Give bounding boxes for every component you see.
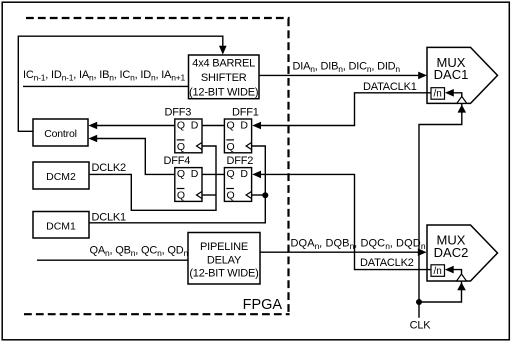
svg-text:DCM1: DCM1 <box>46 220 76 232</box>
flip-flop DFF1 <box>224 107 258 153</box>
arrowhead CLK into DAC2 clock <box>457 282 466 290</box>
DCM1 block <box>33 212 89 239</box>
barrel shifter U1 <box>189 55 260 99</box>
svg-text:DAC1: DAC1 <box>434 67 469 82</box>
svg-text:DELAY: DELAY <box>207 254 242 266</box>
svg-text:DCLK1: DCLK1 <box>92 212 127 224</box>
wire: DCLK2 from DCM2 to DFF3/DFF4 clocks <box>89 146 216 210</box>
wire: DFF4 Q to Control <box>97 139 175 175</box>
svg-text:PIPELINE: PIPELINE <box>200 241 248 253</box>
wire: DFF1 Q to DFF3 D <box>202 125 224 127</box>
flip-flop DFF4 <box>164 155 203 201</box>
svg-text:SHIFTER: SHIFTER <box>201 72 247 84</box>
junction on CLK trunk <box>416 299 422 305</box>
svg-text:DAC2: DAC2 <box>434 245 469 260</box>
svg-text:DCM2: DCM2 <box>46 171 76 183</box>
clock input triangle of DAC1 <box>457 96 467 103</box>
control block <box>33 119 88 146</box>
divider /n of DAC2 <box>431 265 445 277</box>
flip-flop DFF3 <box>165 107 203 153</box>
svg-text:DIAn, DIBn, DICn, DIDn: DIAn, DIBn, DICn, DIDn <box>293 61 401 75</box>
svg-text:FPGA: FPGA <box>243 297 283 313</box>
wire: DQ bus pipeline delay to DAC2 <box>260 251 418 253</box>
svg-text:Q: Q <box>177 190 185 202</box>
arrowhead CLK into DAC1 clock <box>458 105 467 113</box>
arrowhead DFF4 Q into Control <box>88 135 97 143</box>
svg-text:D: D <box>191 120 199 132</box>
flip-flop DFF2 <box>224 155 253 201</box>
wire: DATACLK1 from /n to DFF1 D <box>261 93 431 126</box>
wire: QA bus input to pipeline delay <box>37 259 188 261</box>
arrowhead CLK into /n1 <box>445 89 454 97</box>
mux-dac U2 pentagon (MUX DAC1) <box>427 47 498 103</box>
wire: DFF2 Q to DFF4 D <box>202 173 224 175</box>
svg-text:(12-BIT WIDE): (12-BIT WIDE) <box>189 267 258 279</box>
svg-text:DFF4: DFF4 <box>164 155 191 167</box>
FPGA boundary (dashed) right edge <box>287 19 289 315</box>
wire: DATACLK2 from /n to DFF2 D <box>261 174 431 269</box>
svg-text:D: D <box>240 168 248 180</box>
wire: DIA bus barrel shifter to DAC1 <box>259 74 419 76</box>
svg-text:Q: Q <box>177 141 185 153</box>
svg-text:/n: /n <box>434 266 442 277</box>
svg-text:DFF2: DFF2 <box>227 155 254 167</box>
svg-text:Q: Q <box>227 120 235 132</box>
svg-text:Control: Control <box>44 128 76 140</box>
arrowhead into barrel shifter select <box>219 46 227 55</box>
svg-text:Q: Q <box>227 168 235 180</box>
arrowhead DQ into DAC2 <box>418 248 427 256</box>
FPGA boundary (dashed) top edge <box>26 17 290 19</box>
wire: DCLK2 stub to DFF4 clock <box>202 194 216 196</box>
svg-text:CLK: CLK <box>410 319 432 331</box>
arrowhead DATACLK1 into DFF1 D <box>252 122 261 130</box>
mux-dac U3 pentagon (MUX DAC2) <box>427 225 498 281</box>
clock input triangle of DAC2 <box>457 274 467 281</box>
svg-text:DQAn, DQBn, DQCn, DQDn: DQAn, DQBn, DQCn, DQDn <box>291 238 426 252</box>
svg-text:(12-BIT WIDE): (12-BIT WIDE) <box>189 86 258 98</box>
FPGA boundary (dashed) bottom edge <box>24 313 290 315</box>
svg-text:DFF3: DFF3 <box>165 107 192 119</box>
arrowhead CLK into /n2 <box>445 266 454 274</box>
svg-text:4x4 BARREL: 4x4 BARREL <box>192 58 255 70</box>
svg-text:ICn-1, IDn-1, IAn, IBn, ICn, I: ICn-1, IDn-1, IAn, IBn, ICn, IDn, IAn+1 <box>23 69 185 83</box>
svg-text:DCLK2: DCLK2 <box>92 162 127 174</box>
svg-text:D: D <box>240 120 248 132</box>
svg-text:DATACLK1: DATACLK1 <box>363 81 417 93</box>
svg-text:Q: Q <box>227 190 235 202</box>
arrowhead DFF3 Q into Control <box>88 122 97 130</box>
arrowhead DATACLK2 into DFF2 D <box>252 171 261 179</box>
svg-text:/n: /n <box>434 89 442 100</box>
svg-text:Q: Q <box>227 141 235 153</box>
wire: CLK branch to DAC2 clock and /n2 <box>419 270 462 302</box>
divider /n of DAC1 <box>431 88 445 100</box>
wire: CLK trunk to DAC1 clock and /n1 <box>419 93 462 318</box>
wire: DCLK1 from DCM1 to DFF1 clock <box>89 146 265 223</box>
pipeline delay block <box>188 233 260 285</box>
DCM2 block <box>33 162 89 189</box>
wire: DFF3 Q to Control <box>97 125 175 127</box>
svg-text:QAn, QBn, QCn, QDn: QAn, QBn, QCn, QDn <box>90 244 189 257</box>
svg-text:DATACLK2: DATACLK2 <box>360 257 414 269</box>
svg-text:D: D <box>191 168 199 180</box>
svg-text:DFF1: DFF1 <box>232 107 259 119</box>
junction on DCLK1 at DFF2 clock <box>262 192 268 198</box>
svg-text:Q: Q <box>177 120 185 132</box>
arrowhead DIA into DAC1 <box>418 72 427 80</box>
wire: control feedback to barrel shifter <box>18 36 223 131</box>
svg-text:Q: Q <box>177 168 185 180</box>
wire: barrel shifter input bus <box>23 85 189 87</box>
wire: DCLK1 stub to DFF2 clock <box>252 194 265 196</box>
